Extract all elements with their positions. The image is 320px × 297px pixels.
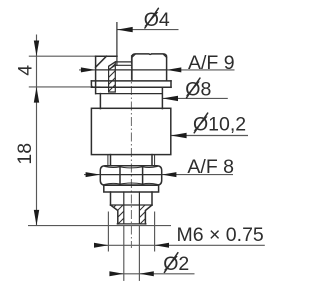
svg-text:4: 4 (15, 65, 37, 76)
svg-text:A/F 9: A/F 9 (188, 52, 235, 74)
svg-text:Ø2: Ø2 (163, 253, 189, 275)
svg-text:M6 × 0.75: M6 × 0.75 (177, 224, 264, 246)
svg-text:Ø8: Ø8 (185, 79, 211, 101)
svg-text:18: 18 (14, 143, 36, 165)
svg-text:A/F 8: A/F 8 (187, 156, 234, 178)
svg-text:Ø10,2: Ø10,2 (193, 114, 246, 136)
svg-text:Ø4: Ø4 (144, 9, 170, 31)
